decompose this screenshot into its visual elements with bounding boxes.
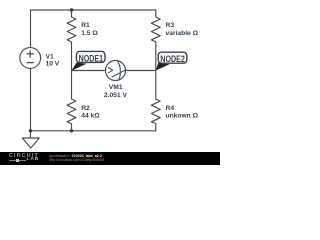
resistor R3 — [151, 10, 160, 71]
svg-text:R1: R1 — [81, 22, 90, 29]
footer caption line 2 — [49, 158, 104, 162]
resistor R2 — [67, 71, 76, 131]
svg-text:2.051 V: 2.051 V — [104, 92, 128, 99]
wire bottom horizontal — [31, 130, 156, 132]
svg-text:VM1: VM1 — [109, 84, 123, 91]
voltage source V1 — [20, 48, 41, 69]
svg-text:variable Ω: variable Ω — [166, 30, 199, 37]
resistor R4 — [151, 71, 160, 131]
node NODE2 — [156, 52, 187, 70]
svg-text:44 kΩ: 44 kΩ — [81, 113, 100, 120]
ground — [22, 131, 39, 148]
junction dot bottom R2 — [70, 129, 73, 132]
svg-text:NODE1: NODE1 — [79, 53, 104, 63]
wire middle left — [72, 70, 106, 72]
junction dot ground tap — [29, 129, 32, 132]
wire left vertical bottom — [30, 69, 32, 131]
resistor R1 — [67, 10, 76, 71]
wire left vertical top — [30, 10, 32, 48]
wire middle right — [125, 70, 155, 72]
voltmeter VM1 — [106, 61, 126, 81]
node NODE1 — [72, 51, 106, 70]
svg-text:1.5 Ω: 1.5 Ω — [81, 30, 98, 37]
svg-text:NODE2: NODE2 — [160, 54, 185, 64]
footer watermark bar — [0, 152, 220, 165]
footer caption line 1 — [49, 154, 102, 158]
junction dot top R1 — [70, 8, 73, 11]
svg-text:R3: R3 — [166, 22, 175, 29]
svg-text:unkown Ω: unkown Ω — [166, 113, 199, 120]
svg-text:10 V: 10 V — [46, 61, 60, 68]
svg-text:R2: R2 — [81, 105, 90, 112]
CircuitLab logo — [9, 153, 39, 159]
svg-text:V1: V1 — [46, 53, 54, 60]
svg-text:R4: R4 — [166, 105, 175, 112]
wire top horizontal — [31, 9, 156, 11]
